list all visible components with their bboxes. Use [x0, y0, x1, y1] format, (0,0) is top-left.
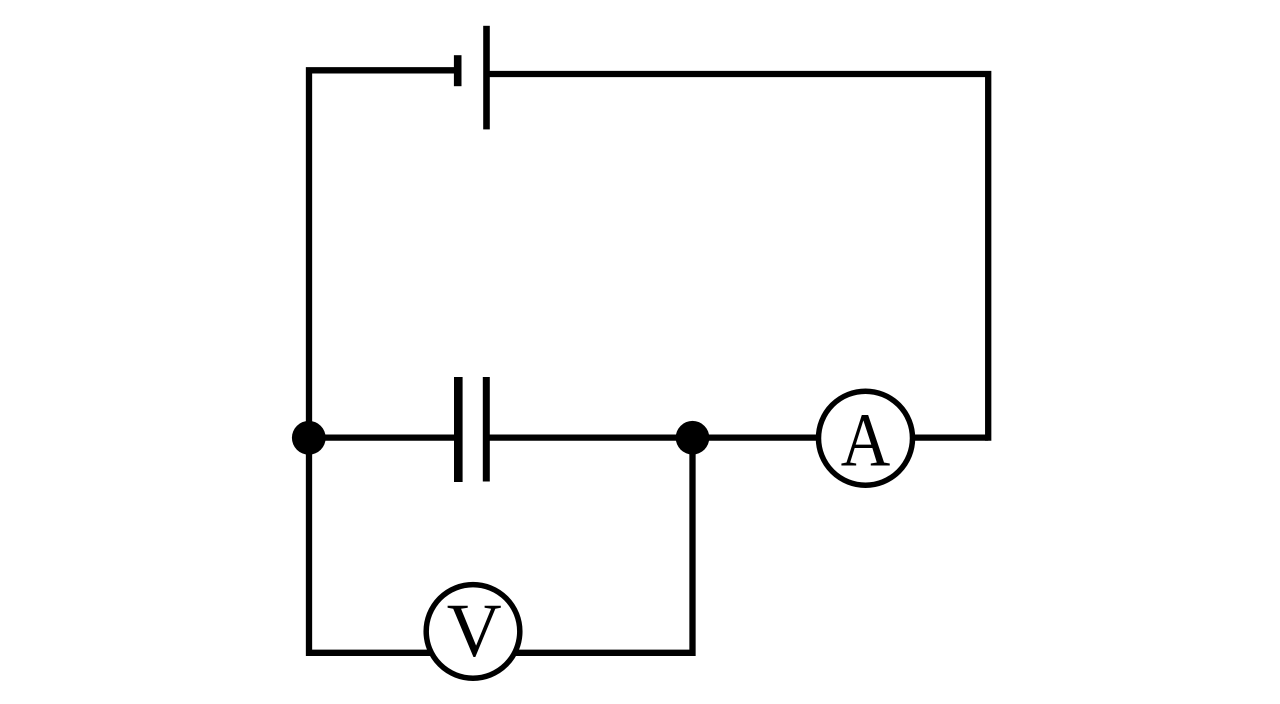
svg-text:V: V	[447, 589, 502, 673]
svg-text:A: A	[841, 398, 891, 482]
